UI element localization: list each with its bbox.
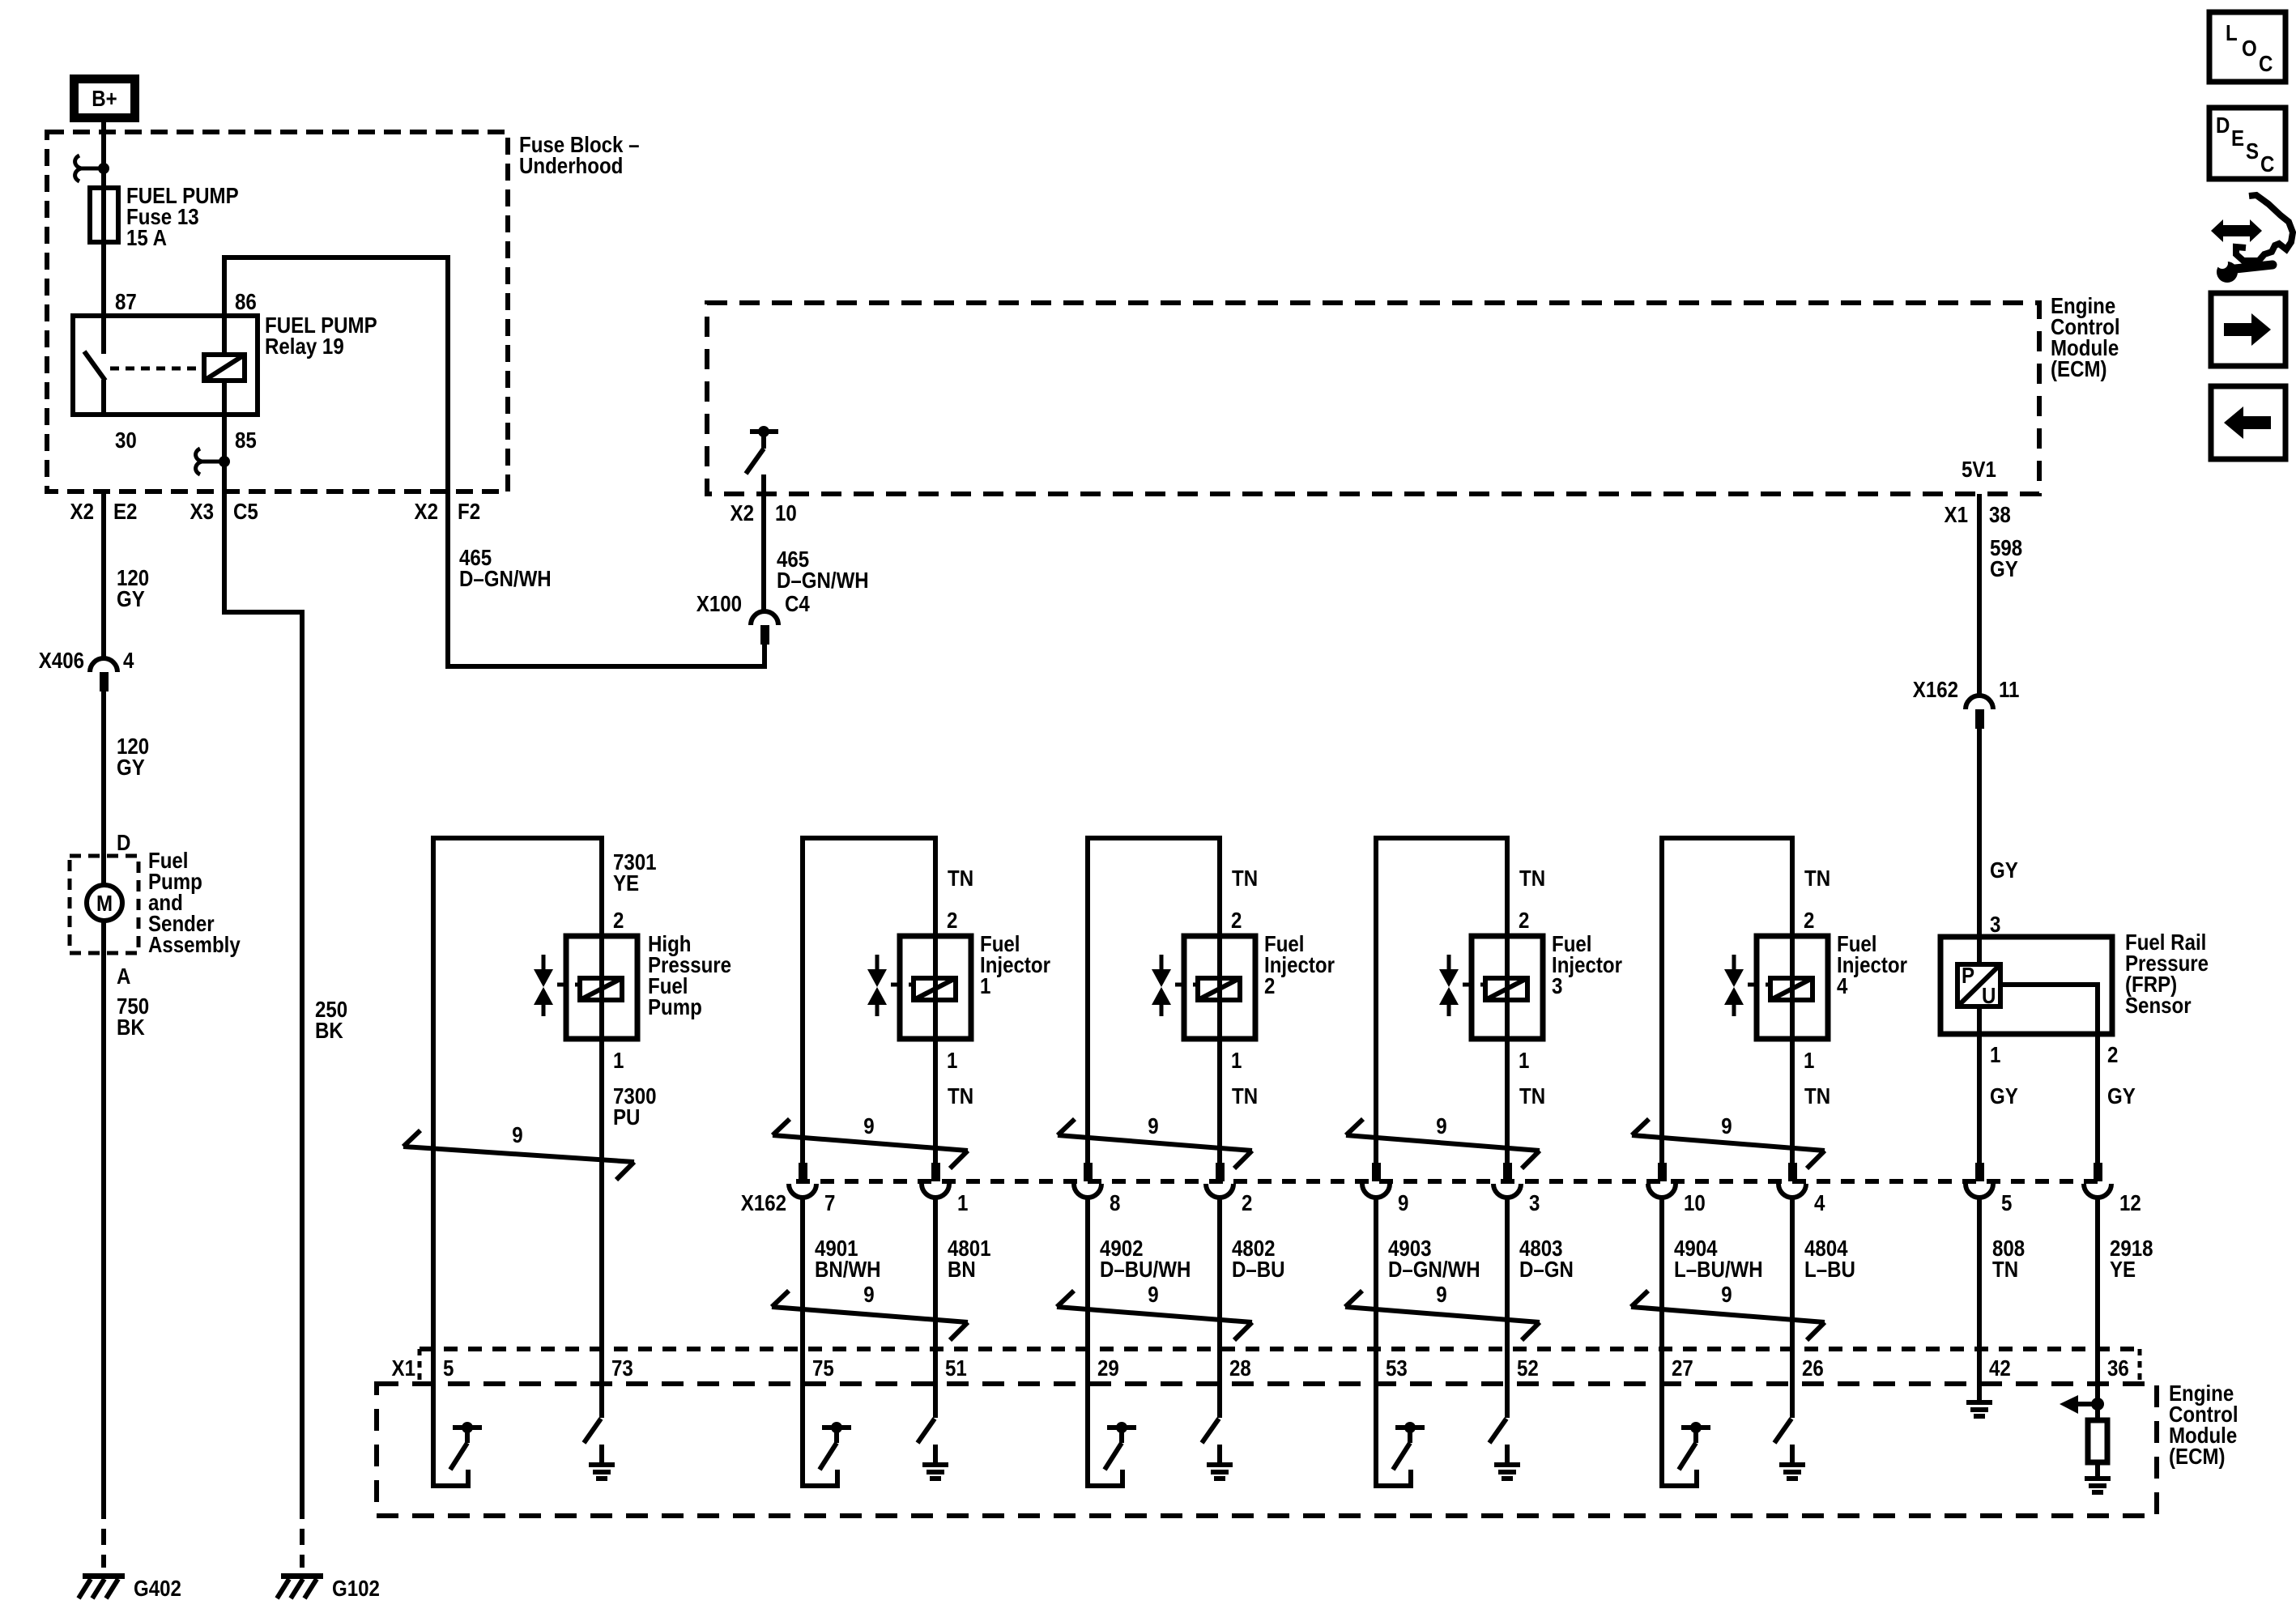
svg-text:30: 30: [115, 427, 137, 453]
svg-text:3: 3: [1552, 972, 1562, 998]
svg-text:GY: GY: [117, 585, 145, 611]
svg-text:M: M: [96, 890, 113, 916]
svg-text:1: 1: [613, 1047, 624, 1073]
resistor at pin 36: [2088, 1420, 2107, 1462]
ECM switch to ground at x2213: [1774, 1349, 1805, 1481]
svg-text:86: 86: [235, 288, 257, 314]
svg-text:YE: YE: [2110, 1256, 2136, 1282]
wire E2 down to X406: [101, 491, 106, 660]
inj2 coil box: [1184, 936, 1255, 1039]
svg-text:Relay 19: Relay 19: [265, 333, 344, 359]
svg-text:9: 9: [1148, 1113, 1158, 1138]
svg-text:F2: F2: [458, 498, 480, 524]
svg-text:(ECM): (ECM): [2051, 355, 2107, 381]
svg-text:2: 2: [1264, 972, 1275, 998]
svg-text:GY: GY: [1990, 555, 2018, 581]
svg-text:42: 42: [1989, 1355, 2011, 1381]
fuse block underhood dashed box: [47, 132, 508, 491]
svg-text:38: 38: [1989, 501, 2011, 527]
inj2 loop wires: [1088, 838, 1220, 1181]
ECM switch to ground at x1155: [918, 1349, 948, 1481]
wire relay pin 85 down: [222, 415, 227, 491]
svg-text:G402: G402: [134, 1575, 181, 1601]
connector X162 pin 7: [789, 1163, 816, 1198]
svg-text:E: E: [2231, 125, 2244, 151]
svg-text:9: 9: [863, 1281, 874, 1307]
svg-text:GY: GY: [1990, 1083, 2018, 1108]
fuel pump motor M: [87, 885, 122, 921]
svg-text:E2: E2: [113, 498, 137, 524]
svg-text:C4: C4: [785, 590, 810, 616]
svg-text:11: 11: [1999, 676, 2019, 702]
svg-text:Assembly: Assembly: [148, 931, 241, 957]
svg-text:Sensor: Sensor: [2125, 992, 2192, 1018]
svg-text:BN: BN: [948, 1256, 976, 1282]
connector X162 pin 8: [1074, 1163, 1101, 1198]
svg-text:C: C: [2259, 50, 2273, 76]
fuel pump and sender assembly dashed box: [70, 856, 138, 953]
ECM switch to ground at x1506: [1202, 1349, 1233, 1481]
icon arrow right box: [2211, 293, 2285, 366]
svg-text:TN: TN: [948, 1083, 973, 1108]
svg-text:3: 3: [1529, 1189, 1540, 1215]
relay contact pin 87 stub: [101, 316, 106, 354]
ground G402: [79, 1573, 125, 1598]
wire C5 down jog to 250 BK: [224, 491, 302, 1503]
svg-text:1: 1: [957, 1189, 968, 1215]
inj4 coil box: [1757, 936, 1828, 1039]
svg-text:29: 29: [1097, 1355, 1119, 1381]
svg-text:B+: B+: [92, 85, 117, 111]
FRP P/U transducer box: [1957, 964, 2000, 1006]
svg-text:7: 7: [824, 1189, 835, 1215]
inj1 coil box: [900, 936, 971, 1039]
fuse clip: [75, 155, 109, 181]
svg-text:5V1: 5V1: [1962, 456, 1996, 482]
wire below X162 pin 9: [1374, 1198, 1378, 1349]
svg-text:27: 27: [1672, 1355, 1693, 1381]
icon DESC box: [2209, 108, 2285, 179]
svg-text:X2: X2: [731, 500, 754, 526]
inj4 loop wires: [1662, 838, 1792, 1181]
wire relay pin 86 loop to F2: [224, 257, 765, 666]
svg-text:85: 85: [235, 427, 257, 453]
svg-text:TN: TN: [1804, 865, 1830, 891]
ECM driver at x1699: [1376, 1349, 1425, 1486]
svg-text:4: 4: [123, 647, 134, 673]
wire resistor to ground: [2095, 1462, 2100, 1477]
svg-text:2: 2: [1231, 907, 1242, 933]
svg-text:Pump: Pump: [648, 994, 702, 1019]
svg-text:1: 1: [1231, 1047, 1242, 1073]
svg-text:TN: TN: [1519, 865, 1545, 891]
svg-text:87: 87: [115, 288, 137, 314]
inj3 valve symbol: [1439, 955, 1485, 1016]
harness 9 slash inj4 upper: [1632, 1119, 1825, 1168]
svg-text:S: S: [2246, 138, 2259, 164]
svg-text:53: 53: [1386, 1355, 1408, 1381]
svg-text:TN: TN: [948, 865, 973, 891]
FRP sensor box: [1940, 937, 2112, 1034]
harness 9 slash inj3 lower: [1345, 1291, 1540, 1340]
relay switch arm: [84, 351, 105, 381]
FRP pin 1 wire: [1977, 1006, 1982, 1034]
svg-text:GY: GY: [1990, 857, 2018, 883]
connector X162 dashed row: [796, 1179, 2106, 1184]
relay linkage dashed: [110, 367, 202, 371]
wire below X162 pin 3: [1505, 1198, 1510, 1349]
svg-text:28: 28: [1229, 1355, 1251, 1381]
inj4 valve symbol: [1724, 955, 1770, 1016]
svg-text:9: 9: [1436, 1281, 1446, 1307]
svg-text:TN: TN: [1519, 1083, 1545, 1108]
svg-text:9: 9: [1721, 1281, 1732, 1307]
relay K19 box: [73, 316, 258, 415]
wire below X162 pin 5: [1977, 1198, 1982, 1349]
wire ECM X1-38 circuit 598: [1977, 494, 1982, 695]
hp pump coil box: [566, 936, 637, 1039]
svg-text:10: 10: [1684, 1189, 1706, 1215]
svg-text:X100: X100: [696, 590, 742, 616]
svg-text:YE: YE: [613, 870, 639, 896]
svg-text:L–BU: L–BU: [1804, 1256, 1855, 1282]
FRP pin 2 wire: [2095, 1034, 2100, 1181]
svg-text:36: 36: [2107, 1355, 2129, 1381]
svg-text:C5: C5: [233, 498, 258, 524]
svg-text:1: 1: [1990, 1041, 2000, 1067]
svg-text:5: 5: [2001, 1189, 2012, 1215]
svg-text:1: 1: [1804, 1047, 1814, 1073]
svg-text:X162: X162: [1913, 676, 1958, 702]
wire 250 BK dashed to G102: [300, 1503, 305, 1568]
wire below X162 pin 2: [1217, 1198, 1222, 1349]
svg-text:BK: BK: [117, 1014, 145, 1040]
icon connector hand with arrow and wrench: [2211, 195, 2293, 283]
svg-text:BN/WH: BN/WH: [815, 1256, 881, 1282]
wire B+ to fuse to relay pin 87: [101, 122, 106, 316]
svg-text:Underhood: Underhood: [519, 152, 623, 178]
inj1 loop wires: [803, 838, 935, 1181]
svg-text:X1: X1: [1945, 501, 1968, 527]
svg-text:5: 5: [443, 1355, 454, 1381]
svg-text:D–BU: D–BU: [1232, 1256, 1285, 1282]
svg-text:TN: TN: [1992, 1256, 2018, 1282]
wire below X162 pin 10: [1659, 1198, 1664, 1349]
svg-text:TN: TN: [1804, 1083, 1830, 1108]
svg-text:L–BU/WH: L–BU/WH: [1674, 1256, 1763, 1282]
svg-text:PU: PU: [613, 1104, 640, 1130]
svg-text:9: 9: [863, 1113, 874, 1138]
svg-text:TN: TN: [1232, 865, 1258, 891]
svg-text:2: 2: [613, 907, 624, 933]
inj1 valve symbol: [867, 955, 914, 1016]
harness 9 slash inj1 lower: [772, 1291, 968, 1340]
fuse F13: [90, 188, 118, 242]
svg-text:X162: X162: [741, 1189, 786, 1215]
svg-text:O: O: [2242, 35, 2257, 61]
ECM driver at x1343: [1088, 1349, 1136, 1486]
FRP internal wire pin 2: [2000, 985, 2098, 1034]
svg-text:A: A: [117, 963, 131, 989]
inj3 coil box: [1472, 936, 1543, 1039]
ground at pin 42: [1966, 1400, 1992, 1419]
connector X100 C4: [751, 611, 778, 645]
wire X100 stub to junction: [762, 645, 767, 669]
svg-text:D–BU/WH: D–BU/WH: [1100, 1256, 1191, 1282]
svg-text:GY: GY: [117, 754, 145, 780]
relay pin 30 stub: [101, 380, 106, 415]
svg-text:9: 9: [512, 1121, 522, 1147]
svg-text:L: L: [2226, 19, 2238, 45]
svg-text:D: D: [2216, 112, 2230, 138]
svg-text:D: D: [117, 829, 130, 855]
ECM driver at x535: [433, 1349, 482, 1486]
connector X162 pin 3: [1493, 1163, 1521, 1198]
inj2 valve symbol: [1152, 955, 1198, 1016]
svg-text:GY: GY: [2107, 1083, 2136, 1108]
icon arrow left box: [2211, 386, 2285, 459]
ECM internal driver switch for pin 10: [746, 426, 778, 474]
ECM switch to ground at x743: [584, 1349, 615, 1481]
svg-text:8: 8: [1110, 1189, 1120, 1215]
svg-text:3: 3: [1990, 911, 2000, 937]
svg-text:9: 9: [1148, 1281, 1158, 1307]
svg-text:15 A: 15 A: [126, 224, 167, 250]
svg-text:G102: G102: [332, 1575, 380, 1601]
svg-text:2: 2: [1519, 907, 1529, 933]
ground G102: [277, 1573, 323, 1598]
svg-text:2: 2: [1242, 1189, 1252, 1215]
connector X162 pin 2: [1206, 1163, 1233, 1198]
svg-text:X2: X2: [415, 498, 438, 524]
svg-text:10: 10: [775, 500, 797, 526]
svg-text:9: 9: [1436, 1113, 1446, 1138]
svg-text:4: 4: [1814, 1189, 1825, 1215]
svg-text:26: 26: [1802, 1355, 1824, 1381]
svg-text:9: 9: [1721, 1113, 1732, 1138]
wire X406 to fuel pump: [101, 691, 106, 886]
svg-text:X2: X2: [70, 498, 94, 524]
ECM top dashed box: [707, 303, 2039, 494]
connector X162 11: [1966, 696, 1993, 729]
svg-text:75: 75: [812, 1355, 834, 1381]
ground under resistor: [2085, 1476, 2111, 1495]
svg-text:U: U: [1982, 982, 1996, 1008]
svg-text:2: 2: [947, 907, 957, 933]
wire below X162 pin 12: [2095, 1198, 2100, 1349]
svg-text:P: P: [1962, 962, 1974, 988]
svg-text:51: 51: [945, 1355, 967, 1381]
connector X162 pin 12: [2084, 1163, 2111, 1198]
svg-text:C: C: [2260, 151, 2275, 177]
svg-text:(ECM): (ECM): [2169, 1443, 2226, 1469]
wire below X162 pin 4: [1790, 1198, 1795, 1349]
svg-text:1: 1: [980, 972, 990, 998]
wire ECM X2-10 down to X100: [761, 474, 766, 613]
inj3 loop wires: [1376, 838, 1507, 1181]
svg-text:D–GN/WH: D–GN/WH: [459, 565, 552, 591]
svg-text:TN: TN: [1232, 1083, 1258, 1108]
svg-text:D–GN/WH: D–GN/WH: [1388, 1256, 1480, 1282]
svg-text:D–GN/WH: D–GN/WH: [777, 567, 869, 593]
wire below X162 pin 1: [933, 1198, 938, 1349]
clip at relay pin 85: [196, 449, 230, 474]
harness 9 slash inj2 lower: [1057, 1291, 1252, 1340]
svg-text:X3: X3: [190, 498, 214, 524]
wire fuel pump to G402: [101, 920, 106, 1503]
arrow at pin 36: [2060, 1395, 2104, 1414]
relay coil: [204, 355, 245, 381]
harness 9 slash inj4 lower: [1631, 1291, 1825, 1340]
svg-text:1: 1: [1519, 1047, 1529, 1073]
svg-text:12: 12: [2119, 1189, 2141, 1215]
ECM driver at x991: [803, 1349, 851, 1486]
svg-text:D–GN: D–GN: [1519, 1256, 1574, 1282]
svg-text:X1: X1: [392, 1355, 415, 1381]
ECM driver at x2052: [1662, 1349, 1710, 1486]
icon LOC box: [2209, 12, 2285, 82]
wire below X162 pin 8: [1085, 1198, 1090, 1349]
hp pump valve symbol: [534, 955, 580, 1016]
wire pin 36 to pullup: [2095, 1349, 2100, 1421]
wire X162-11 to FRP sensor: [1977, 729, 1982, 937]
connector X162 pin 10: [1648, 1163, 1676, 1198]
connector X1 dashed row: [420, 1347, 2140, 1351]
svg-text:73: 73: [611, 1355, 633, 1381]
connector X162 pin 5: [1966, 1163, 1993, 1198]
svg-text:X406: X406: [39, 647, 84, 673]
svg-text:4: 4: [1837, 972, 1848, 998]
ECM switch to ground at x1861: [1489, 1349, 1520, 1481]
harness 9 slash hp pump: [403, 1130, 634, 1180]
svg-text:2: 2: [2107, 1041, 2118, 1067]
connector X406 4: [90, 658, 117, 691]
harness 9 slash inj2 upper: [1058, 1119, 1252, 1168]
connector X162 pin 4: [1778, 1163, 1806, 1198]
svg-text:52: 52: [1517, 1355, 1539, 1381]
B+ battery terminal: [70, 74, 139, 122]
wire pin 42 to ground: [1977, 1349, 1982, 1401]
ECM bottom dashed box: [377, 1384, 2157, 1516]
svg-text:1: 1: [947, 1047, 957, 1073]
svg-text:9: 9: [1398, 1189, 1408, 1215]
svg-text:2: 2: [1804, 907, 1814, 933]
svg-text:BK: BK: [315, 1017, 343, 1043]
relay coil wire pin 86 to 85: [222, 316, 227, 415]
hp pump loop wires: [433, 838, 602, 1349]
harness 9 slash inj3 upper: [1346, 1119, 1540, 1168]
connector X162 pin 9: [1362, 1163, 1390, 1198]
connector X162 pin 1: [922, 1163, 949, 1198]
wire below X162 pin 7: [800, 1198, 805, 1349]
harness 9 slash inj1 upper: [773, 1119, 968, 1168]
FRP pin 3 internal wire: [1977, 937, 1982, 964]
